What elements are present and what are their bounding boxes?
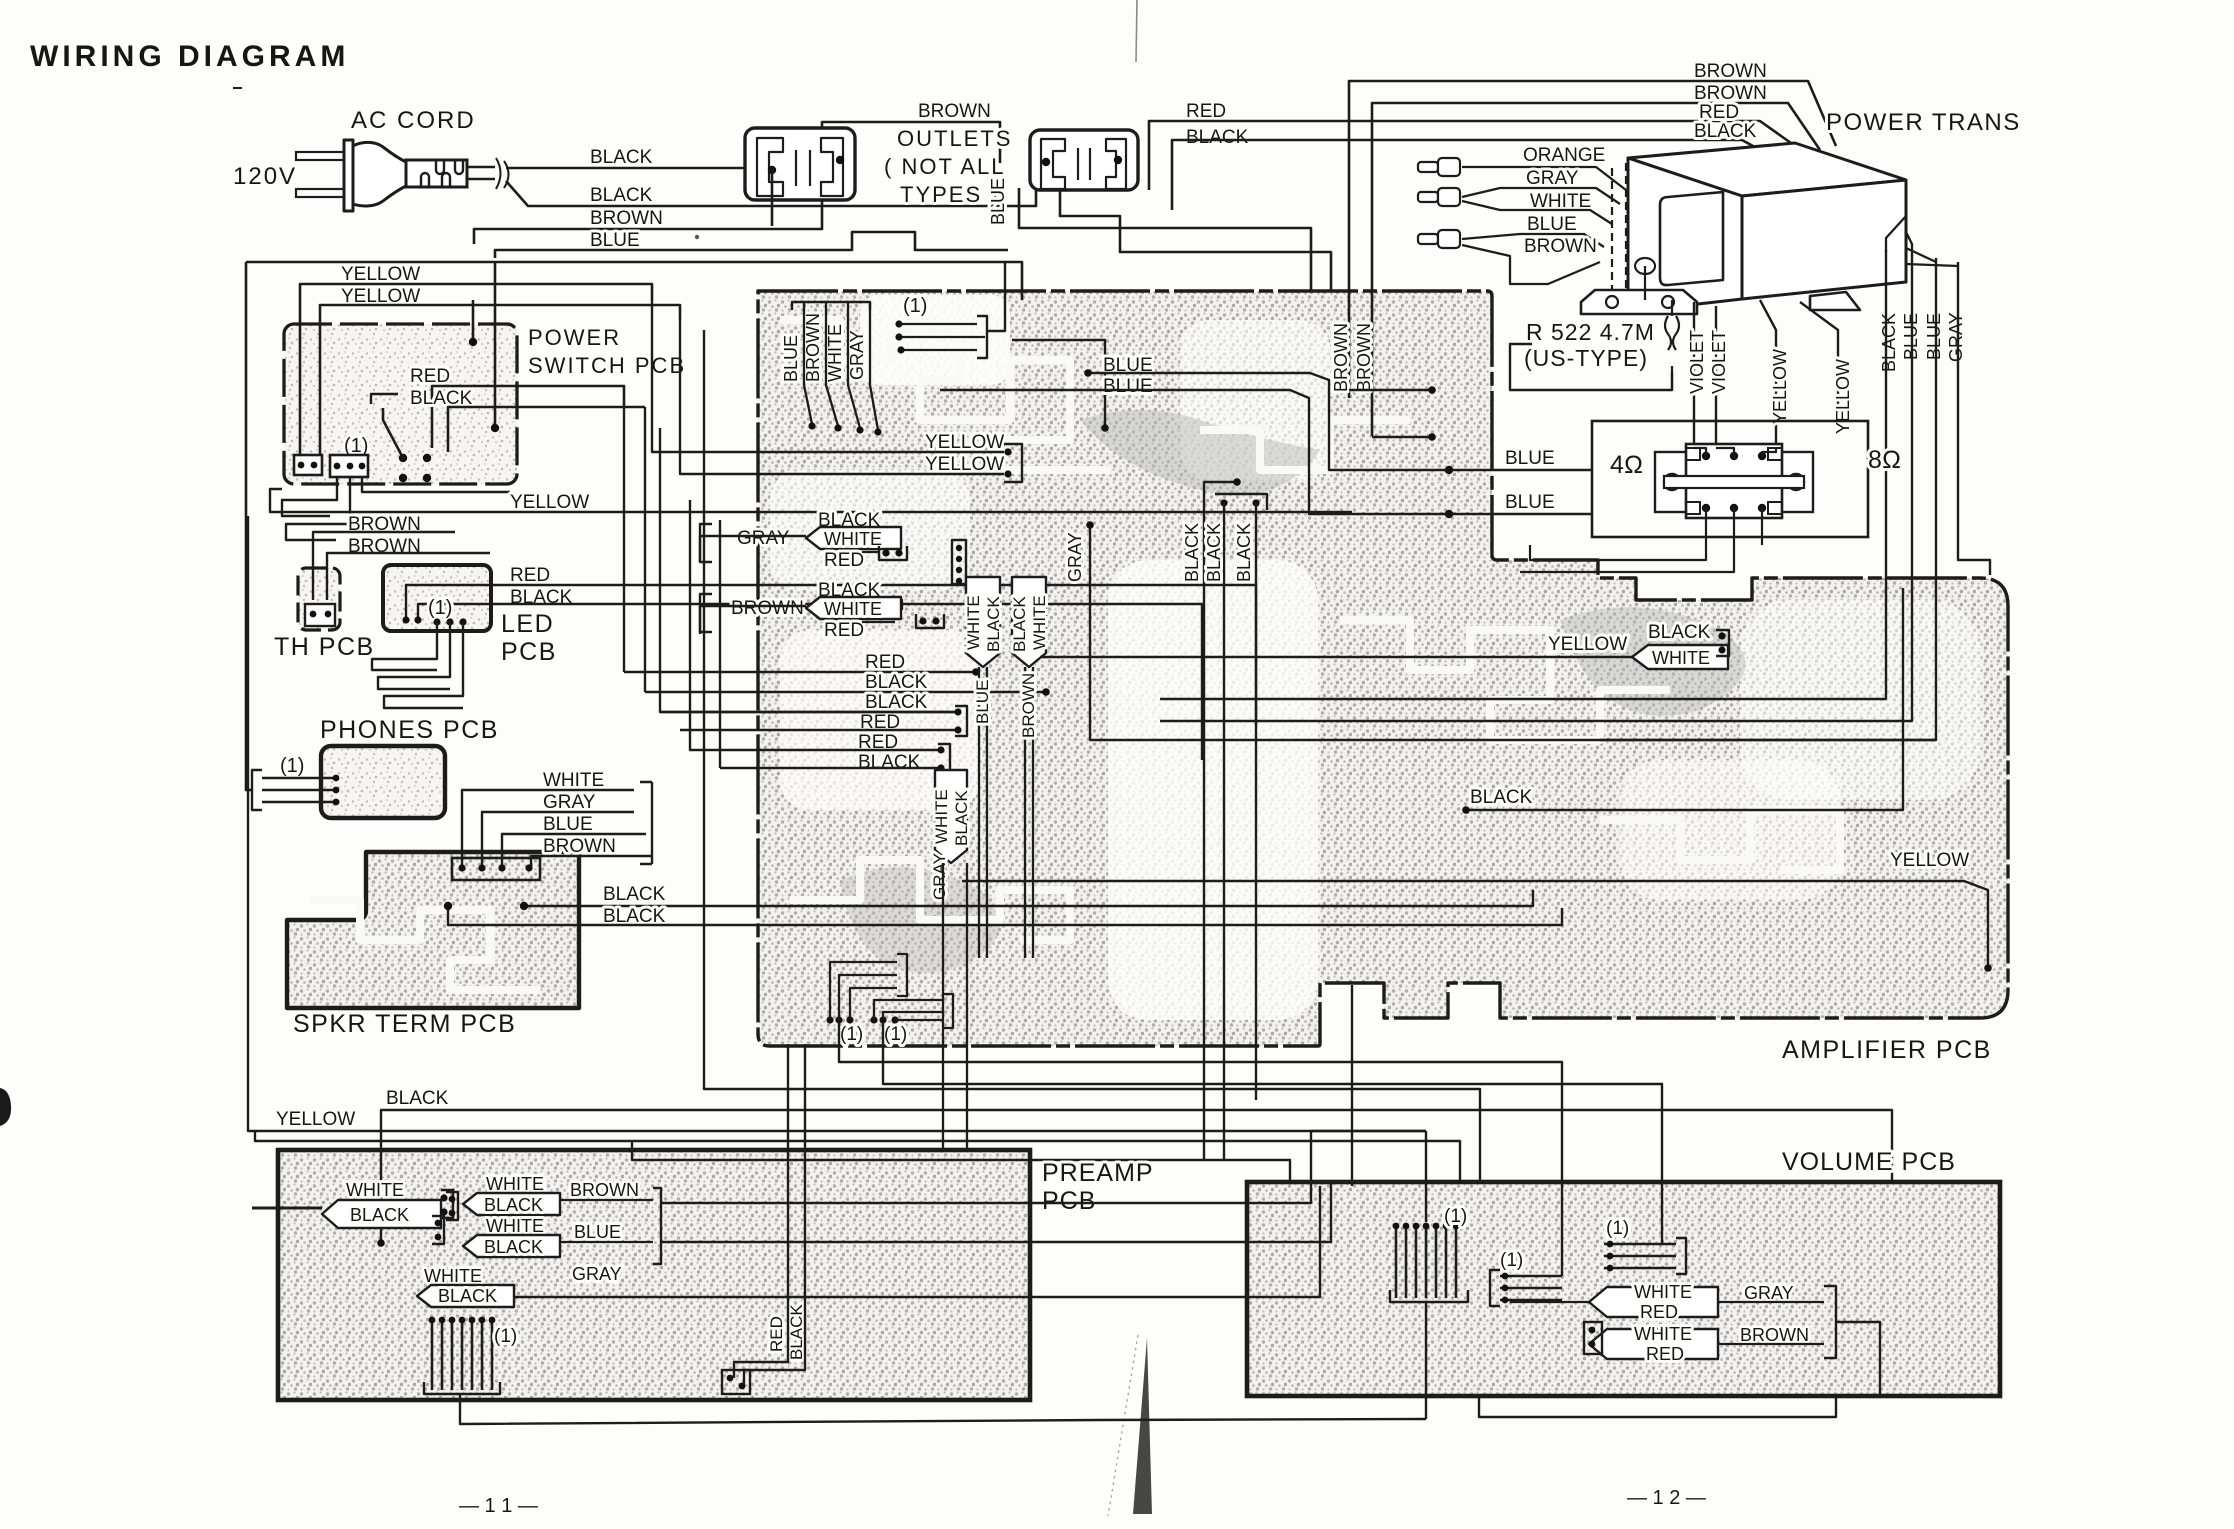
svg-text:YELLOW: YELLOW bbox=[276, 1109, 355, 1130]
wire fan 2 bbox=[826, 302, 838, 426]
svg-text:BLUE: BLUE bbox=[543, 814, 593, 835]
svg-text:(1): (1) bbox=[884, 1024, 907, 1045]
wire fan 4 bbox=[870, 302, 878, 430]
svg-text:RED: RED bbox=[824, 620, 864, 641]
switch lever bbox=[383, 408, 403, 458]
svg-text:BLUE: BLUE bbox=[781, 335, 801, 382]
preamp pcb board bbox=[278, 1150, 1030, 1400]
wire gray vmid bbox=[1090, 525, 1936, 740]
svg-text:BLACK: BLACK bbox=[858, 752, 921, 773]
svg-text:BLACK: BLACK bbox=[438, 1286, 497, 1306]
selector pin b1 bbox=[1702, 504, 1710, 512]
arrow down box A bbox=[966, 577, 1000, 667]
svg-text:RED: RED bbox=[767, 1316, 786, 1352]
wire black spkr1 bbox=[524, 890, 1533, 906]
volume bracket right bbox=[1824, 1286, 1836, 1358]
svg-text:BLACK: BLACK bbox=[1648, 622, 1711, 643]
wire black vright bbox=[1160, 250, 1886, 699]
dot led 5 bbox=[459, 618, 466, 625]
dot led 2 bbox=[414, 616, 421, 623]
svg-text:GRAY: GRAY bbox=[847, 330, 867, 380]
dot yellow amp1 bbox=[1004, 448, 1011, 455]
outlet 2 inner outline bbox=[1041, 139, 1126, 189]
dot black st1 bbox=[1042, 688, 1050, 696]
wire brown th2 bbox=[327, 553, 490, 600]
AC plug body shell bbox=[353, 142, 406, 206]
wire led tail1 bbox=[372, 622, 437, 670]
amp conn2 dots bbox=[956, 545, 962, 551]
wire red vpa bbox=[734, 1044, 788, 1378]
wire fan 3 bbox=[848, 302, 860, 428]
amp white patch 7 bbox=[1740, 600, 1980, 800]
speaker selector outer box bbox=[1592, 421, 1868, 537]
outlet 1 inner slots bbox=[796, 150, 810, 186]
power switch connector A bbox=[294, 455, 322, 475]
connector B pin1 bbox=[334, 463, 341, 470]
dot rb b bbox=[739, 1383, 746, 1390]
wire gray pd long bbox=[514, 1186, 1320, 1297]
svg-text:POWER: POWER bbox=[528, 325, 621, 350]
spkr term pcb board bbox=[287, 852, 579, 1008]
svg-text:BROWN: BROWN bbox=[731, 598, 804, 619]
wire left frame vertical bbox=[246, 262, 252, 790]
wire brown pb bbox=[560, 1199, 653, 1201]
svg-text:BLACK: BLACK bbox=[350, 1205, 409, 1225]
svg-text:RED: RED bbox=[1186, 101, 1226, 122]
svg-text:YELLOW: YELLOW bbox=[510, 492, 589, 513]
wire violet to pin t1 bbox=[1694, 448, 1706, 456]
wire violet 2 bbox=[1715, 306, 1717, 448]
wire black top bbox=[1172, 140, 1775, 210]
wire black vpa bbox=[744, 1044, 805, 1386]
svg-text:RED: RED bbox=[1640, 1302, 1678, 1322]
amplifier pcb board bbox=[758, 291, 2008, 1046]
connector st3 bbox=[938, 744, 950, 774]
svg-text:8Ω: 8Ω bbox=[1868, 446, 1901, 474]
transformer coil inner bbox=[1660, 192, 1723, 285]
dot fan4 bbox=[874, 428, 881, 435]
selector tab br bbox=[1768, 502, 1782, 514]
svg-text:BLUE: BLUE bbox=[590, 230, 640, 251]
dot ar b bbox=[1718, 646, 1725, 653]
svg-text:BLACK: BLACK bbox=[1694, 121, 1757, 142]
volume comb connector bbox=[1395, 1226, 1398, 1298]
dot vcs b bbox=[1589, 1341, 1596, 1348]
svg-text:BROWN: BROWN bbox=[543, 836, 616, 857]
page fold dark wedge bbox=[1133, 1338, 1152, 1514]
svg-text:GRAY: GRAY bbox=[1065, 532, 1085, 582]
dot ar a bbox=[1718, 632, 1725, 639]
preamp trace maze 1 bbox=[320, 1250, 740, 1350]
svg-text:VIOLET: VIOLET bbox=[1709, 330, 1729, 394]
wire brown tr2 bbox=[1372, 103, 1820, 436]
svg-text:WHITE: WHITE bbox=[1030, 595, 1049, 650]
connector B pin3 bbox=[359, 463, 366, 470]
dot phones 1 bbox=[333, 775, 340, 782]
dot conn3 b bbox=[1252, 499, 1259, 506]
dot vcs a bbox=[1589, 1327, 1596, 1334]
svg-text:WHITE: WHITE bbox=[543, 770, 604, 791]
wire yellow sec 1 bbox=[1760, 300, 1776, 448]
selector pin t2 bbox=[1730, 452, 1738, 460]
AC plug cable break bbox=[496, 158, 509, 189]
wire yellow mid bbox=[270, 489, 1352, 512]
wire preamp comb out bbox=[460, 1394, 1426, 1424]
wire yellow br bbox=[962, 881, 1988, 966]
svg-text:WHITE: WHITE bbox=[824, 529, 882, 549]
amp conn1 line1 bbox=[899, 323, 977, 325]
svg-text:PCB: PCB bbox=[1042, 1187, 1096, 1215]
wire brown ac bbox=[474, 122, 1000, 244]
svg-text:(1): (1) bbox=[494, 1326, 517, 1347]
th pin 2 bbox=[325, 611, 332, 618]
preamp bracket right bbox=[653, 1188, 661, 1264]
svg-text:BROWN: BROWN bbox=[1694, 83, 1767, 104]
dot led 3 bbox=[433, 618, 440, 625]
switch contact dot 4 bbox=[423, 474, 431, 482]
wire mid h1160 bbox=[632, 1141, 1290, 1184]
connector B pin2 bbox=[347, 463, 354, 470]
svg-text:BLUE: BLUE bbox=[1527, 214, 1577, 235]
wire bundle v5 bbox=[719, 520, 721, 768]
svg-text:BLACK: BLACK bbox=[1204, 523, 1224, 582]
svg-text:( NOT ALL: ( NOT ALL bbox=[884, 154, 1006, 179]
svg-text:TH PCB: TH PCB bbox=[274, 633, 375, 661]
wire black st1 bbox=[645, 691, 1046, 693]
page fold crease bottom center bbox=[1108, 1335, 1138, 1516]
svg-text:BLUE: BLUE bbox=[1924, 313, 1944, 360]
outlet 1 contact dot bbox=[768, 166, 776, 174]
outlet 1 body bbox=[745, 128, 855, 200]
svg-text:(1): (1) bbox=[840, 1024, 863, 1045]
wire black led bbox=[418, 604, 1202, 760]
wire gray stack bbox=[482, 812, 628, 868]
svg-text:BLACK: BLACK bbox=[865, 692, 928, 713]
wire led tail3 bbox=[384, 622, 463, 708]
volume trace maze 1 bbox=[1280, 1260, 1610, 1350]
amp bot bracket1 bbox=[897, 954, 907, 996]
pin lug 3 bbox=[1418, 234, 1438, 244]
amp trace maze 5 bbox=[1200, 420, 1410, 470]
wire brown vb2 bbox=[1718, 1343, 1824, 1345]
wire sw drop brown1 bbox=[472, 300, 475, 342]
dot pa b bbox=[440, 1208, 447, 1215]
svg-text:BLACK: BLACK bbox=[484, 1237, 543, 1257]
outlet 1 contact dot b bbox=[836, 156, 844, 164]
arrow box pa bbox=[322, 1200, 441, 1228]
svg-text:BROWN: BROWN bbox=[1524, 236, 1597, 257]
dot sw blue1 bbox=[491, 424, 499, 432]
outlet 2 body bbox=[1030, 130, 1138, 190]
amp trace maze 4 bbox=[1600, 810, 1840, 870]
dot led 4 bbox=[446, 618, 453, 625]
dot p2 a bbox=[435, 1220, 442, 1227]
vol conn small bbox=[1584, 1322, 1602, 1354]
power switch pcb board bbox=[284, 324, 517, 484]
svg-text:PREAMP: PREAMP bbox=[1042, 1159, 1154, 1187]
wire outlet1 drop bbox=[771, 170, 774, 226]
svg-text:BLACK: BLACK bbox=[865, 672, 928, 693]
dot phones 3 bbox=[333, 799, 340, 806]
dot p1 a bbox=[449, 1196, 456, 1203]
wire black ag1 leader bbox=[875, 530, 898, 540]
svg-text:BLACK: BLACK bbox=[484, 1195, 543, 1215]
wire mid h1141 bbox=[255, 1131, 1460, 1184]
amp trace maze 2 bbox=[1340, 620, 1670, 740]
selector tab bl bbox=[1686, 502, 1700, 514]
wire phones lead1 bbox=[262, 777, 336, 779]
arrow box pb bbox=[463, 1193, 560, 1215]
svg-text:WHITE: WHITE bbox=[486, 1216, 544, 1236]
svg-text:(1): (1) bbox=[1606, 1218, 1629, 1239]
dot blue spk2 bbox=[1445, 510, 1453, 518]
svg-text:BLACK: BLACK bbox=[1234, 523, 1254, 582]
transformer right bracket bbox=[1810, 292, 1860, 310]
wire blue outlet drop bbox=[1019, 188, 1311, 291]
svg-text:RED: RED bbox=[510, 565, 550, 586]
resistor R522 body bbox=[1665, 300, 1679, 390]
svg-text:GRAY: GRAY bbox=[543, 792, 596, 813]
amp bot wire5 bbox=[883, 1012, 943, 1020]
svg-text:GRAY: GRAY bbox=[572, 1264, 622, 1284]
dot blue spk1 bbox=[1445, 466, 1453, 474]
svg-text:RED: RED bbox=[410, 366, 450, 387]
wire yellow sw2 bbox=[320, 305, 680, 462]
dot yellow amp2 bbox=[1004, 470, 1011, 477]
wire black st2 bbox=[660, 711, 955, 713]
wire brown lead bbox=[1462, 245, 1600, 284]
arrow box ag1 bbox=[806, 527, 901, 549]
svg-text:BLACK: BLACK bbox=[1879, 313, 1899, 372]
amp conn1 dot3 bbox=[897, 346, 904, 353]
preamp conn p2 bbox=[432, 1216, 444, 1244]
dot fan1 bbox=[808, 422, 815, 429]
connector ag1 bbox=[879, 546, 907, 560]
AC plug ribbed connector bbox=[406, 160, 467, 187]
svg-text:R 522 4.7M: R 522 4.7M bbox=[1526, 319, 1655, 345]
volume trace maze 2 bbox=[1700, 1220, 1960, 1320]
dot blue mid1 bbox=[1084, 369, 1092, 377]
svg-text:BROWN: BROWN bbox=[803, 313, 823, 382]
wire switch hook bbox=[371, 394, 398, 404]
arrow box pc bbox=[463, 1235, 560, 1257]
svg-text:BLUE: BLUE bbox=[973, 680, 992, 724]
svg-text:GRAY: GRAY bbox=[1526, 168, 1579, 189]
svg-text:RED: RED bbox=[824, 550, 864, 571]
wire yellow sw1 bbox=[300, 284, 652, 462]
svg-text:VOLUME PCB: VOLUME PCB bbox=[1782, 1148, 1956, 1176]
th pcb inner connector bbox=[305, 604, 335, 626]
wire amp conn1 out bbox=[988, 263, 1005, 331]
wire white lead bbox=[1462, 201, 1612, 224]
wire violet to pin t2 bbox=[1716, 448, 1734, 456]
selector pin b2 bbox=[1730, 504, 1738, 512]
svg-text:GRAY: GRAY bbox=[930, 853, 949, 900]
wire orange lead bbox=[1462, 167, 1626, 190]
wire red st1 bbox=[624, 671, 976, 673]
svg-text:YELLOW: YELLOW bbox=[925, 454, 1004, 475]
preamp conn rb bbox=[722, 1370, 750, 1394]
svg-text:BLACK: BLACK bbox=[603, 884, 666, 905]
wire volume comb in bbox=[1425, 1131, 1427, 1222]
svg-text:BLACK: BLACK bbox=[1182, 523, 1202, 582]
svg-text:WHITE: WHITE bbox=[964, 595, 983, 650]
selector right hole bbox=[1788, 474, 1804, 490]
svg-text:BROWN: BROWN bbox=[1694, 61, 1767, 82]
wire tr stub2 bbox=[1906, 232, 1912, 256]
pin lug 2 bbox=[1418, 192, 1438, 202]
vol conn2 dots bbox=[1502, 1273, 1509, 1280]
wire brown vc1 cont bbox=[661, 1131, 1426, 1203]
amp bot wire4 bbox=[874, 1000, 943, 1020]
svg-text:BROWN: BROWN bbox=[570, 1180, 639, 1200]
amp conn2 4pin bbox=[952, 540, 966, 584]
wire blue mid1 bbox=[1088, 373, 1449, 470]
wire frame top bbox=[246, 262, 1022, 300]
amp white patch 2 bbox=[1108, 560, 1318, 1020]
connector st2 bbox=[955, 706, 967, 736]
svg-text:BROWN: BROWN bbox=[1019, 673, 1038, 738]
svg-text:4Ω: 4Ω bbox=[1610, 451, 1643, 479]
svg-text:PCB: PCB bbox=[501, 638, 557, 666]
wire amp mid dot link bbox=[1012, 340, 1105, 428]
selector tab tl bbox=[1686, 448, 1700, 460]
svg-text:TYPES ): TYPES ) bbox=[900, 182, 1000, 207]
bracket gray arrow1 bbox=[700, 524, 712, 562]
wire bundle v4 bbox=[690, 500, 700, 750]
svg-text:BROWN: BROWN bbox=[590, 208, 663, 229]
dot gray vmid bbox=[1086, 521, 1094, 529]
wire volume bottom U bbox=[1479, 1394, 1836, 1417]
wire pair B bbox=[1025, 667, 1033, 958]
wire sw tail 2 bbox=[286, 477, 350, 540]
svg-text:WHITE: WHITE bbox=[1652, 648, 1710, 668]
amp bot wire6 bbox=[895, 1019, 943, 1021]
transformer mounting plate bbox=[1581, 290, 1697, 314]
phones bracket bbox=[252, 770, 262, 810]
wire brown arrow2 bbox=[700, 606, 806, 634]
selector pin t1 bbox=[1702, 452, 1710, 460]
wire outlet2 bottom drop bbox=[1060, 190, 1331, 291]
amp white patch 4 bbox=[1620, 760, 1840, 900]
svg-text:BLACK: BLACK bbox=[590, 185, 653, 206]
th pin 1 bbox=[310, 611, 317, 618]
dot brown vc2 bbox=[1428, 433, 1436, 441]
wire yellow long left bbox=[362, 477, 510, 492]
wire phones lead2 bbox=[262, 789, 336, 791]
bracket brown arrow2 bbox=[700, 594, 712, 632]
amp trace maze 3 bbox=[790, 860, 1070, 940]
wire black lr bbox=[1466, 588, 1903, 810]
dot ag1 a bbox=[882, 549, 889, 556]
svg-text:SPKR TERM PCB: SPKR TERM PCB bbox=[293, 1010, 516, 1038]
wire gray lead bbox=[1462, 188, 1620, 204]
wire black midleft bbox=[381, 1110, 1892, 1243]
outlet 2 contact dot bbox=[1042, 158, 1050, 166]
svg-text:WIRING DIAGRAM: WIRING DIAGRAM bbox=[30, 40, 349, 73]
dot black vx1 bbox=[1233, 478, 1241, 486]
amp bot wire2 bbox=[839, 975, 897, 1020]
amp yellow bracket bbox=[1004, 444, 1022, 482]
dot conn3 a bbox=[1220, 499, 1227, 506]
preamp trace maze 3 bbox=[340, 1320, 720, 1370]
wire brown vc2 cont bbox=[661, 1184, 1331, 1242]
svg-text:— 1 1 —: — 1 1 — bbox=[459, 1495, 538, 1517]
phones pcb board bbox=[321, 746, 445, 818]
svg-text:GRAY: GRAY bbox=[737, 528, 790, 549]
svg-text:WHITE: WHITE bbox=[1634, 1324, 1692, 1344]
wire sw drop blue1 bbox=[494, 262, 497, 428]
dot stack 2 bbox=[478, 864, 485, 871]
selector center body bbox=[1686, 444, 1782, 518]
wire sw tail 1 bbox=[282, 477, 337, 516]
svg-text:(1): (1) bbox=[903, 295, 927, 317]
wire red top bbox=[1149, 121, 1798, 190]
wire yellow ar bbox=[1040, 656, 1632, 658]
pin lug 1 bbox=[1418, 162, 1438, 172]
svg-text:PHONES PCB: PHONES PCB bbox=[320, 716, 499, 744]
amp conn1 bracket bbox=[977, 316, 987, 358]
wire brown stack bbox=[531, 856, 644, 868]
wire selector b2 drop bbox=[1520, 508, 1734, 572]
wire gray arrow1 bbox=[700, 536, 806, 562]
amp conn1 line2 bbox=[899, 336, 985, 338]
connector ar bbox=[1716, 630, 1729, 656]
wire brown vc1 dot bbox=[1349, 389, 1432, 391]
selector tab tr bbox=[1768, 448, 1782, 460]
outlet 1 inner outline bbox=[757, 138, 843, 196]
wire tr stub4 bbox=[1906, 264, 1958, 266]
wire selector b1 drop bbox=[1530, 508, 1706, 560]
switch contact dot 2 bbox=[423, 454, 431, 462]
power switch connector B bbox=[330, 455, 368, 477]
wire blue ac bbox=[495, 232, 1008, 258]
svg-text:(1): (1) bbox=[280, 755, 304, 777]
amp white patch 1 bbox=[860, 295, 1010, 385]
AC plug rib slot top bbox=[436, 161, 463, 174]
svg-text:BLACK: BLACK bbox=[1186, 127, 1249, 148]
amp bot bracket2 bbox=[943, 994, 953, 1028]
dot rb a bbox=[727, 1375, 734, 1382]
wire long v to preamp bbox=[704, 330, 1480, 1184]
connector A pin1 bbox=[298, 462, 305, 469]
wire black sw bbox=[448, 407, 645, 452]
dot stack 1 bbox=[458, 864, 465, 871]
transformer top face bbox=[1628, 143, 1906, 196]
wire yellow sec 2 bbox=[1800, 302, 1838, 421]
svg-text:BLUE: BLUE bbox=[1103, 376, 1153, 397]
volume pcb board bbox=[1247, 1182, 2000, 1396]
wire preamp stub left bbox=[252, 1207, 322, 1210]
svg-text:BLUE: BLUE bbox=[1505, 492, 1555, 513]
selector left plate bbox=[1655, 452, 1689, 512]
wire blue spk2 bbox=[1449, 513, 1592, 515]
wire black ag2 leader bbox=[875, 600, 902, 610]
amp conn1 line3 bbox=[901, 349, 977, 351]
arrow box vg bbox=[1589, 1287, 1718, 1317]
wire blue lead bbox=[1462, 234, 1604, 247]
wire yellow midleft bbox=[248, 516, 1426, 1131]
stray dot bbox=[695, 235, 699, 239]
svg-text:YELLOW: YELLOW bbox=[1833, 359, 1853, 434]
svg-text:WHITE: WHITE bbox=[486, 1174, 544, 1194]
svg-text:— 1 2 —: — 1 2 — bbox=[1627, 1487, 1706, 1509]
amp conn3 bracket bbox=[1215, 494, 1267, 510]
outlet 2 contact dot b bbox=[1114, 156, 1122, 164]
title underline tick bbox=[233, 87, 242, 89]
wire vol conn3 riser bbox=[1351, 985, 1353, 1186]
wire blue pc bbox=[560, 1241, 653, 1243]
